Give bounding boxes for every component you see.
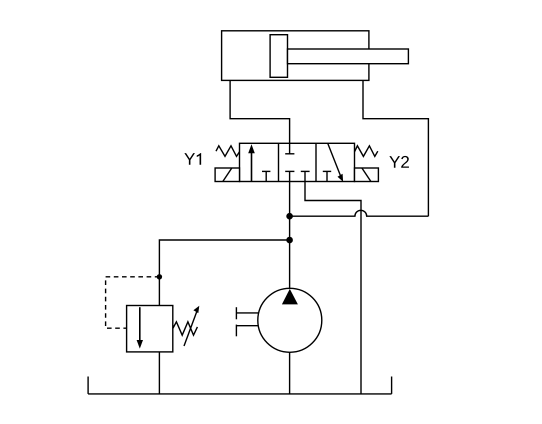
cylinder C1 piston [270, 35, 287, 78]
pump P1 drive shaft lines [236, 312, 258, 314]
valve V1 right position: diagonal arrow [328, 144, 341, 177]
label Y1 [184, 153, 201, 165]
pump P1 shaft end ticks [235, 307, 237, 319]
wire cylinder-left-port to valve A port [230, 80, 290, 143]
tank line T [88, 393, 392, 395]
cylinder C1 rod [288, 49, 409, 64]
tank line left tick [87, 377, 89, 394]
pump P1 circle [258, 288, 322, 352]
valve V1 centre position: blocked top port [289, 143, 291, 154]
wire cylinder-right-port to right riser [363, 80, 428, 216]
relief valve RV1 internal down arrow [139, 307, 141, 340]
valve V1 centre position: blocked bottom port 1 [289, 171, 291, 181]
valve V1 body (3 positions) [240, 143, 355, 181]
relief valve RV1 spring [173, 322, 198, 335]
wire cross connector with hop over tank riser [290, 210, 429, 216]
valve V1 left spring [216, 146, 240, 157]
valve V1 right solenoid diagonal [362, 168, 371, 182]
valve V1 right position: blocked port T [326, 171, 328, 181]
label Y2 [389, 156, 409, 168]
wire valve B port to tank riser [305, 182, 361, 394]
junction node dot upper [286, 213, 293, 220]
relief valve RV1 adjustment arrow [184, 311, 197, 346]
junction node dot lower [286, 237, 293, 244]
wire to relief valve branch [159, 240, 289, 306]
valve V1 left position: up arrow [251, 151, 253, 182]
valve V1 divider left [278, 143, 280, 181]
relief valve RV1 pilot dashed line [106, 277, 160, 328]
valve V1 right spring [355, 146, 378, 157]
wire relief valve to tank [158, 352, 160, 394]
wire valve P port down to pump [289, 182, 291, 289]
valve V1 right solenoid box [355, 168, 379, 182]
valve V1 divider right [315, 143, 317, 181]
valve V1 left position: blocked port T [265, 171, 267, 181]
tank line right tick [391, 377, 393, 394]
valve V1 left solenoid diagonal [223, 168, 232, 182]
relief valve RV1 body [127, 306, 173, 352]
wire pump to tank [289, 352, 291, 394]
cylinder C1 body [222, 31, 369, 81]
pump P1 flow triangle [282, 289, 298, 305]
valve V1 left solenoid box [215, 168, 239, 182]
valve V1 centre position: blocked bottom port 2 [304, 171, 306, 181]
junction node dot pilot tap [157, 274, 162, 279]
